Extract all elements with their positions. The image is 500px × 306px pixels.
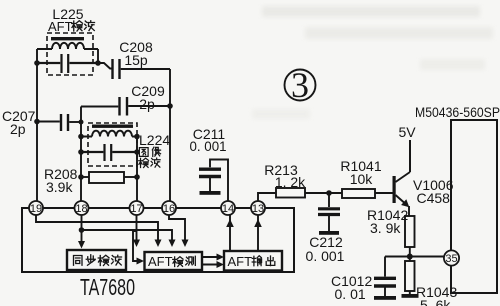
transistor V1006 collector bbox=[396, 140, 411, 182]
inductor L225 core bar bbox=[51, 37, 84, 40]
inductor L224 dashed box bbox=[88, 123, 137, 166]
wire pin16 internal bbox=[169, 215, 185, 241]
arrow to AFT-out lower bbox=[217, 261, 225, 268]
node L224 cap left dot bbox=[78, 149, 84, 155]
wire C211 stem bbox=[209, 178, 211, 191]
wire AFT-det to AFT-out upper bbox=[202, 256, 219, 258]
wire node to pin35 bbox=[410, 256, 444, 258]
wire to C208 bbox=[98, 63, 112, 69]
svg-text:AFT: AFT bbox=[48, 19, 73, 34]
ground R1043 bbox=[402, 294, 419, 298]
ground C211 bbox=[200, 191, 221, 195]
wire R208 left bbox=[81, 176, 89, 178]
svg-text:AFT: AFT bbox=[228, 254, 253, 269]
node R208 right dot bbox=[134, 174, 140, 180]
wire R208 right bbox=[124, 176, 137, 178]
pin 35 bbox=[444, 250, 459, 265]
wire pin18 branch bbox=[82, 230, 173, 241]
svg-text:L224: L224 bbox=[139, 132, 170, 148]
svg-text:M50436-560SP: M50436-560SP bbox=[415, 104, 500, 120]
node L224 coil right dot bbox=[134, 134, 140, 140]
wire pin17 internal down bbox=[136, 215, 138, 241]
svg-text:17: 17 bbox=[130, 203, 142, 215]
svg-text:35: 35 bbox=[445, 253, 457, 265]
capacitor C211 wire from pin14 bbox=[210, 160, 228, 202]
inductor L224 coil bbox=[81, 131, 137, 137]
svg-text:0. 001: 0. 001 bbox=[306, 248, 345, 264]
figure number 3 circled bbox=[285, 70, 316, 101]
svg-text:C458: C458 bbox=[417, 190, 451, 206]
label tuxiang bbox=[139, 148, 148, 157]
wire pin18 internal down bbox=[81, 215, 83, 243]
arrow into AFT-det top 3 bbox=[169, 240, 176, 248]
svg-text:19: 19 bbox=[30, 203, 42, 215]
wire C208 right to rail D bbox=[121, 69, 170, 201]
wire pin17 branch to AFT-det left bbox=[133, 231, 139, 261]
wire node to C1012 bbox=[385, 257, 410, 277]
ground C212 bbox=[319, 231, 339, 235]
svg-text:16: 16 bbox=[163, 203, 175, 215]
svg-text:14: 14 bbox=[222, 203, 234, 215]
wire C1012 stem bbox=[384, 288, 386, 297]
capacitor C209 bbox=[120, 97, 128, 116]
svg-text:18: 18 bbox=[75, 203, 87, 215]
resistor R1041 bbox=[342, 189, 375, 198]
capacitor C208 bbox=[113, 59, 120, 79]
transistor V1006 base bar bbox=[393, 176, 396, 203]
wire 5V bbox=[409, 140, 411, 172]
wire C209 right bbox=[128, 105, 170, 107]
arrow to AFT-out upper bbox=[217, 254, 225, 261]
wire pin19 internal bbox=[36, 215, 158, 241]
inductor L224 core bar bbox=[92, 125, 133, 128]
label jianbo2 bbox=[139, 158, 149, 167]
wire C209 left to rail B bbox=[81, 107, 118, 202]
wire pin13 to R213 bbox=[258, 193, 276, 201]
node R1042-R1043 dot bbox=[407, 254, 413, 260]
svg-text:3: 3 bbox=[291, 65, 309, 105]
wire R1041 to base bbox=[375, 192, 393, 194]
svg-text:15p: 15p bbox=[124, 52, 148, 68]
svg-text:AFT: AFT bbox=[148, 254, 173, 269]
capacitor in L224 bbox=[81, 144, 137, 161]
block sync-det box bbox=[67, 250, 126, 270]
node L224 cap right dot bbox=[134, 149, 140, 155]
wire R1042 to node bbox=[409, 247, 411, 261]
ground C1012 bbox=[374, 296, 396, 300]
wire rail A left vertical bbox=[36, 49, 38, 201]
pin 18 bbox=[75, 201, 89, 215]
node A2 junction dot C207 left bbox=[34, 119, 40, 125]
resistor R208 bbox=[89, 172, 124, 183]
svg-text:2p: 2p bbox=[139, 96, 155, 112]
(decorative scan ghosting, not labelled further) bbox=[262, 6, 480, 17]
node R208 left dot bbox=[78, 174, 84, 180]
wire R1043 stem bbox=[409, 291, 411, 294]
arrow into AFT-det top 1 bbox=[155, 240, 162, 248]
wire L225 right down bbox=[97, 49, 99, 63]
arrow into sync-det bbox=[78, 241, 85, 249]
wire emitter to R1042 bbox=[408, 206, 410, 216]
IC U1 TA7680 box bbox=[22, 208, 294, 272]
pin 13 bbox=[251, 201, 265, 215]
IC U2 M50436 box bbox=[451, 120, 497, 293]
block AFT-det box bbox=[145, 252, 203, 270]
capacitor C207 bbox=[61, 114, 68, 131]
resistor R213 bbox=[276, 188, 305, 198]
wire C212 stem bottom bbox=[328, 216, 330, 231]
wire R213 to R1041 bbox=[305, 192, 342, 194]
node L225 right junction dot bbox=[95, 60, 101, 66]
node C209 right junction dot bbox=[167, 103, 173, 109]
wire C212 stem top bbox=[328, 193, 330, 207]
svg-text:5V: 5V bbox=[398, 124, 416, 140]
svg-text:1. 2k: 1. 2k bbox=[275, 174, 306, 190]
svg-text:0. 001: 0. 001 bbox=[190, 138, 227, 154]
wire AFT-det to AFT-out lower bbox=[202, 264, 219, 266]
svg-text:3. 9k: 3. 9k bbox=[370, 220, 401, 236]
wire C207 left bbox=[37, 121, 60, 123]
label sync-det text bbox=[74, 256, 83, 266]
resistor R1043 bbox=[405, 261, 415, 291]
node L224 coil left dot bbox=[78, 134, 84, 140]
arrow up to pin13 bbox=[254, 219, 262, 227]
arrow emitter bbox=[401, 199, 409, 207]
block AFT-out box bbox=[224, 251, 282, 271]
wire AFT-out to pin14 bbox=[229, 215, 231, 251]
svg-text:3.9k: 3.9k bbox=[46, 179, 73, 195]
arrow into AFT-det top 4 bbox=[182, 240, 189, 248]
node pin18 branch dot bbox=[79, 227, 85, 233]
svg-text:2p: 2p bbox=[10, 121, 26, 137]
node A1 junction dot L225 left bbox=[34, 60, 40, 66]
wire C207 right bbox=[69, 121, 81, 123]
svg-text:13: 13 bbox=[252, 203, 264, 215]
capacitor C211 plates bbox=[199, 169, 221, 176]
node C207 right dot bbox=[79, 120, 84, 125]
wire AFT-out to pin13 bbox=[257, 215, 259, 251]
pin 19 bbox=[29, 201, 43, 215]
svg-text:5. 6k: 5. 6k bbox=[420, 297, 451, 306]
capacitor C212 plates bbox=[318, 209, 340, 215]
pin 14 bbox=[221, 201, 235, 215]
capacitor C1012 plates bbox=[374, 278, 396, 286]
arrow up to pin14 bbox=[226, 219, 234, 227]
pin 16 bbox=[162, 201, 176, 215]
transistor V1006 emitter bbox=[396, 195, 409, 206]
pin 17 bbox=[130, 201, 144, 215]
arrow into AFT-det left bbox=[137, 258, 145, 265]
svg-text:0. 01: 0. 01 bbox=[335, 286, 366, 302]
wire rail C bbox=[136, 137, 138, 202]
arrow pin17 down bbox=[133, 240, 140, 248]
capacitor in L225 bbox=[37, 54, 98, 73]
inductor L225 dashed box bbox=[47, 33, 93, 75]
inductor L225 coil bbox=[37, 43, 98, 49]
svg-text:TA7680: TA7680 bbox=[80, 274, 135, 300]
resistor R1042 bbox=[405, 216, 415, 247]
node C212 tap dot bbox=[326, 190, 332, 196]
svg-text:10k: 10k bbox=[350, 171, 374, 187]
